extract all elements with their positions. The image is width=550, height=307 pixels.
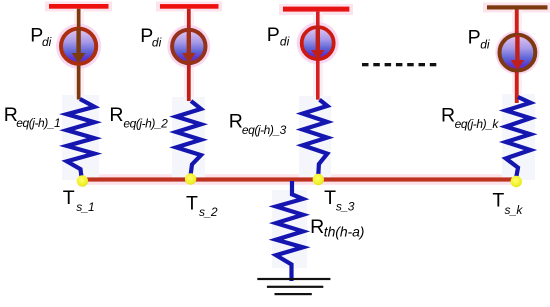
node T_s_2 (junction dot)	[185, 173, 196, 184]
svg-text:eq(j-h)_1: eq(j-h)_1	[16, 116, 60, 130]
svg-text:eq(j-h)_2: eq(j-h)_2	[123, 116, 168, 130]
wire: branch 1 vertical lead (bar to resistor)	[77, 9, 81, 100]
wire: top plate (collector bar) branch 2	[160, 4, 219, 9]
svg-text:P: P	[468, 27, 481, 49]
svg-text:T: T	[63, 187, 75, 209]
current source P_di branch 3 (circle body)	[302, 27, 334, 59]
wire: branch 2 vertical lead (bar to resistor)	[187, 9, 191, 101]
svg-text:T: T	[324, 187, 336, 209]
current source P_di branch k (circle body)	[500, 35, 536, 71]
wire: branch k vertical lead (bar to resistor)	[515, 10, 519, 104]
node T_s_1 (junction dot)	[77, 175, 88, 186]
svg-text:eq(j-h)_3: eq(j-h)_3	[242, 123, 287, 137]
current source P_di branch 2 arrow	[182, 29, 195, 64]
svg-text:s_3: s_3	[336, 199, 355, 213]
svg-text:di: di	[280, 34, 290, 48]
ground (ambient)	[257, 278, 330, 295]
svg-text:di: di	[152, 35, 162, 49]
resistor Req(j-h)_3	[303, 100, 328, 175]
svg-text:s_2: s_2	[199, 205, 218, 219]
svg-text:T: T	[186, 192, 198, 214]
wire: bus node T_s_3 to T_s_k	[318, 177, 516, 181]
resistor Req(j-h)_1	[67, 99, 95, 177]
node T_s_k (junction dot)	[511, 176, 522, 187]
svg-text:R: R	[441, 105, 455, 127]
wire: top plate (collector bar) branch k	[487, 5, 548, 9]
svg-text:s_k: s_k	[505, 203, 524, 217]
wire: top plate (collector bar) branch 3	[283, 7, 349, 12]
svg-text:di: di	[480, 38, 490, 52]
svg-text:R: R	[109, 104, 123, 126]
svg-text:di: di	[42, 35, 52, 49]
wire: bus node T_s_2 to T_s_3	[191, 177, 319, 181]
current source P_di branch 2 (circle body)	[172, 30, 205, 63]
current source P_di branch 1 (circle body)	[61, 29, 96, 64]
current source P_di branch 3 arrow	[311, 26, 324, 60]
resistor R_th(h-a) (heatsink to ambient)	[276, 181, 303, 281]
wire: branch 3 vertical lead (bar to resistor)	[316, 12, 320, 100]
ellipsis (dashed continuation between branch 3 and branch k)	[362, 63, 436, 66]
svg-text:s_1: s_1	[76, 200, 94, 214]
node T_s_3 (junction dot)	[313, 174, 324, 185]
svg-text:T: T	[492, 189, 504, 211]
svg-text:P: P	[267, 24, 280, 46]
svg-text:R: R	[310, 216, 324, 238]
svg-text:eq(j-h)_k: eq(j-h)_k	[455, 117, 500, 131]
current source P_di branch 1 arrow	[72, 28, 86, 64]
current source P_di branch k arrow	[511, 35, 524, 70]
resistor Req(j-h)_2	[176, 101, 201, 175]
wire: bus node T_s_1 to T_s_2	[82, 177, 190, 181]
resistor Req(j-h)_k	[506, 97, 531, 177]
wire: top plate (collector bar) branch 1	[49, 4, 109, 9]
svg-text:R: R	[229, 110, 243, 132]
svg-text:th(h-a): th(h-a)	[324, 224, 365, 240]
